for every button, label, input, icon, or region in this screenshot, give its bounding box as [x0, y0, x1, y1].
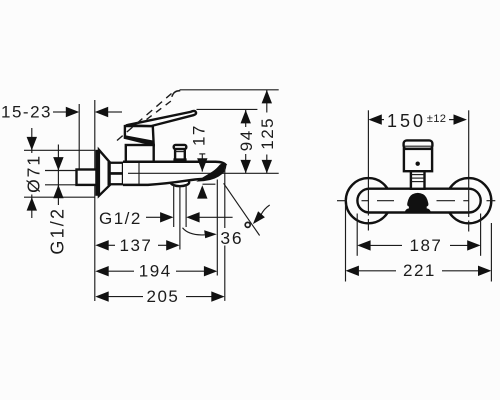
svg-text:G1/2: G1/2	[48, 207, 68, 255]
dimension 187 line and arrows	[357, 240, 480, 250]
svg-text:Ø71: Ø71	[24, 154, 44, 193]
svg-text:36: 36	[220, 228, 243, 248]
dimension 194 line arrows and label	[95, 262, 217, 281]
extension line left connection center	[367, 110, 369, 178]
handle body (front)	[404, 149, 432, 171]
wall face reference line	[94, 100, 96, 301]
dimension 205 line arrows and label	[95, 287, 224, 306]
raised lever dashed lines	[117, 91, 180, 141]
dimension 221 line and arrows	[346, 266, 492, 276]
36 degree leader arrow	[253, 205, 270, 224]
dimension Ø71 line arrows and label	[24, 128, 44, 218]
dimension G1/2 (bottom outlet) arrows	[146, 212, 233, 222]
svg-text:17: 17	[190, 124, 209, 146]
dimension 94 line arrows and label	[237, 110, 256, 173]
svg-text:94: 94	[237, 129, 256, 151]
svg-text:15-23: 15-23	[1, 103, 52, 122]
left vertical centerline	[367, 179, 369, 231]
right vertical centerline	[468, 179, 470, 232]
curved leader to outlet line	[183, 228, 217, 238]
right escutcheon circle	[446, 178, 491, 223]
svg-text:G1/2: G1/2	[99, 209, 142, 228]
extension line spout tip (205)	[224, 167, 226, 301]
extension line raised lever height (125)	[180, 89, 279, 91]
horizontal centerline	[337, 200, 495, 202]
cartridge silhouette	[405, 193, 431, 212]
dimension 221 extension lines	[346, 204, 492, 282]
dimension 17 line and arrows	[197, 154, 207, 199]
svg-text:205: 205	[147, 287, 180, 306]
svg-text:125: 125	[258, 117, 277, 150]
svg-text:221: 221	[403, 261, 436, 280]
svg-text:187: 187	[410, 236, 443, 255]
dimension 15-23 line and arrows	[53, 107, 122, 117]
36 degree label	[220, 222, 250, 247]
lever arm	[126, 111, 196, 126]
spout tip crescent	[196, 163, 226, 181]
faucet body (side view)	[123, 162, 226, 185]
dimension 150 line and arrows	[368, 114, 467, 124]
dimension G1/2 (wall pipe) line arrows and label	[48, 145, 68, 258]
body centerline	[128, 172, 279, 174]
dimension G1/2 (wall pipe) extension lines	[45, 171, 76, 185]
handle neck with ribs	[411, 171, 425, 189]
escutcheon cone	[99, 150, 111, 196]
escutcheon flange	[95, 150, 99, 196]
dimension 125 line arrows and label	[258, 90, 277, 173]
supply pipe stub	[77, 170, 97, 185]
handle cap (front)	[404, 140, 433, 149]
body capsule	[357, 189, 480, 213]
svg-text:150: 150	[387, 111, 426, 131]
bottom outlet extension lines	[174, 185, 186, 250]
lever handle base	[125, 126, 154, 145]
36 degree angle line	[224, 183, 260, 235]
dimension 187 extension lines	[357, 214, 480, 256]
extension line pipe end	[78, 104, 80, 171]
svg-text:194: 194	[139, 262, 172, 281]
cartridge housing	[126, 145, 154, 162]
extension line lever height (94)	[197, 108, 258, 110]
union nut	[108, 162, 125, 186]
left escutcheon circle	[346, 178, 391, 223]
dimension 17 lower reference tick	[203, 183, 216, 185]
bottom outlet ellipse	[171, 178, 190, 186]
diverter knob	[173, 145, 186, 161]
extension line right connection center	[468, 110, 470, 178]
svg-text:137: 137	[120, 236, 153, 255]
extension line spout outlet (194)	[216, 180, 218, 276]
svg-text:±12: ±12	[427, 113, 446, 125]
dimension Ø71 extension lines	[24, 150, 95, 197]
dimension 137 line arrows and label	[95, 236, 179, 255]
